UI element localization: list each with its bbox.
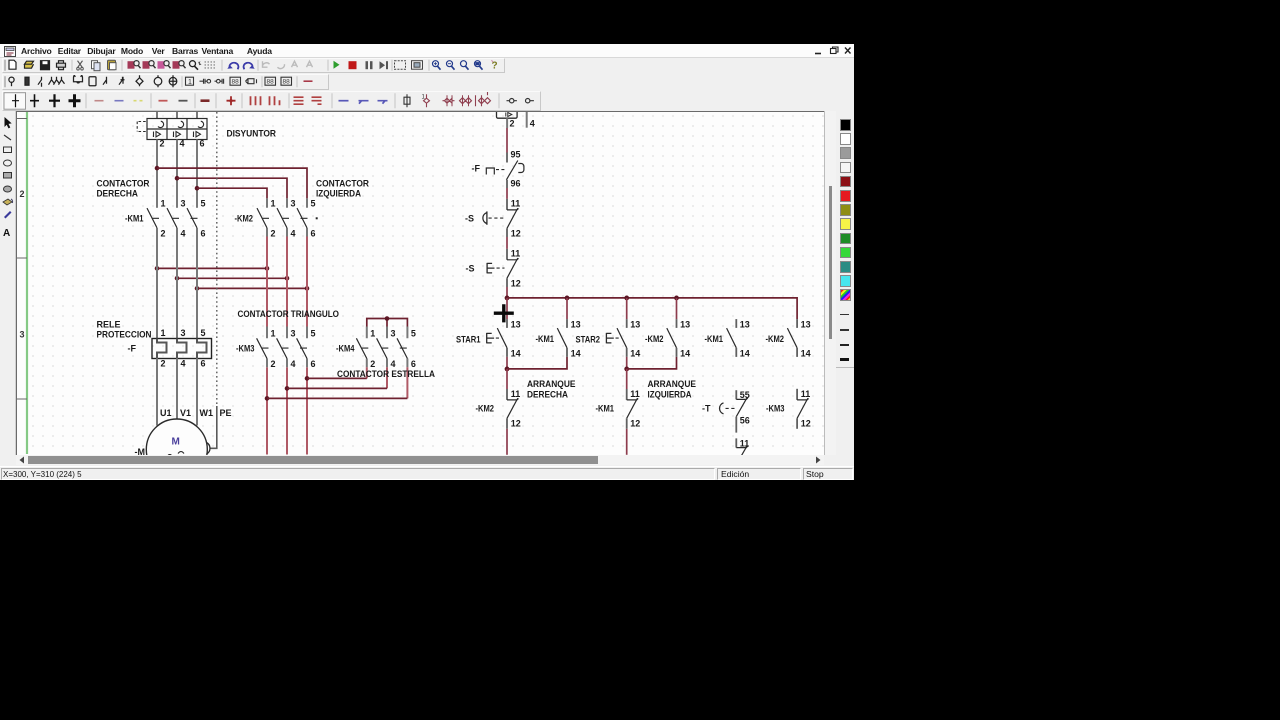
svg-text:PROTECCION: PROTECCION (97, 330, 152, 340)
svg-text:13: 13 (571, 319, 581, 329)
junction KM3 pole1 column to KM4 pole6 (265, 396, 270, 401)
svg-text:56: 56 (740, 416, 750, 426)
svg-text:3: 3 (291, 329, 296, 339)
motor M1 terminal labels U1 V1 W1 (160, 408, 213, 418)
svg-text:6: 6 (200, 139, 205, 149)
svg-text:CONTACTOR TRIANGULO: CONTACTOR TRIANGULO (238, 309, 340, 319)
svg-text:-KM2: -KM2 (766, 334, 785, 344)
svg-text:11: 11 (630, 389, 640, 399)
svg-text:-KM1: -KM1 (536, 334, 555, 344)
PE conductor (207, 112, 217, 454)
svg-text:6: 6 (411, 359, 416, 369)
svg-text:13: 13 (740, 319, 750, 329)
svg-text:4: 4 (181, 359, 186, 369)
svg-text:3: 3 (181, 328, 186, 338)
svg-text:-KM2: -KM2 (645, 334, 664, 344)
svg-text:-F: -F (128, 344, 137, 354)
svg-text:1: 1 (188, 79, 192, 86)
junction bus to STAR2 (624, 296, 629, 301)
start button STAR2 13-14 (606, 319, 626, 357)
svg-text:DERECHA: DERECHA (97, 189, 139, 199)
svg-text:STAR1: STAR1 (456, 334, 481, 344)
junction L3 feed to KM2 (195, 186, 200, 191)
svg-text:CONTACTOR ESTRELLA: CONTACTOR ESTRELLA (337, 369, 435, 379)
svg-text:?: ? (492, 61, 498, 72)
interlock contact KM1 11-12 (627, 389, 639, 429)
svg-text:6: 6 (311, 359, 316, 369)
svg-text:4: 4 (291, 359, 296, 369)
svg-text:-T: -T (702, 404, 711, 414)
svg-text:11: 11 (511, 389, 521, 399)
svg-text:12: 12 (511, 419, 521, 429)
svg-text:14: 14 (511, 349, 521, 359)
svg-text:6: 6 (201, 229, 206, 239)
svg-text:2: 2 (271, 359, 276, 369)
wire F1 to S1 (506, 188, 508, 199)
svg-text:U1: U1 (160, 408, 172, 418)
svg-text:5: 5 (311, 199, 316, 209)
svg-text:5: 5 (311, 329, 316, 339)
junction KM2 pole2 column (265, 266, 270, 271)
svg-text:A: A (3, 228, 10, 239)
wire bus to STAR2 (626, 298, 628, 319)
svg-text:M: M (172, 437, 180, 448)
aux contact KM1 13-14 (seal-in) (557, 319, 567, 357)
svg-text:13: 13 (630, 319, 640, 329)
svg-text:14: 14 (740, 349, 750, 359)
contact below T1 (clipped at sheet edge) (736, 446, 748, 456)
junction L2 feed to KM2 (175, 176, 180, 181)
wire KM2 pole2 to L1 (157, 267, 267, 269)
wire STAR2 to seal junction (626, 357, 628, 369)
svg-text:2: 2 (160, 139, 165, 149)
svg-text:4: 4 (180, 139, 185, 149)
svg-text:1: 1 (370, 329, 375, 339)
junction star bridge (385, 316, 390, 321)
wire bus to STAR1 (506, 298, 508, 319)
svg-text:2: 2 (370, 359, 375, 369)
svg-text:DISYUNTOR: DISYUNTOR (227, 129, 277, 139)
wire KM4 pole2 to KM3 column W (366, 367, 368, 378)
wire Q2 to F1 trip contact (506, 128, 508, 153)
wire phase W branch to KM3 pole 5 (306, 237, 308, 455)
svg-text:4: 4 (530, 119, 535, 129)
wire KM4 pole6 to KM3 column U (406, 367, 408, 398)
svg-text:2: 2 (161, 359, 166, 369)
star bridge wire on KM4 tops (367, 319, 408, 327)
svg-text:13: 13 (680, 319, 690, 329)
svg-text:1: 1 (161, 199, 166, 209)
wire L3 supply drop to Q1 (196, 112, 198, 119)
svg-text:2: 2 (271, 229, 276, 239)
circuit breaker Q2 (control, 2-pole) (497, 106, 527, 128)
svg-text:V1: V1 (180, 408, 191, 418)
svg-text:PE: PE (220, 408, 232, 418)
svg-text:-KM1: -KM1 (125, 214, 144, 224)
svg-text:12: 12 (511, 279, 521, 289)
svg-text:14: 14 (630, 349, 640, 359)
svg-text:IZQUIERDA: IZQUIERDA (316, 189, 361, 199)
interlock contact KM3 11-12 (797, 389, 809, 429)
aux contact KM2 13-14 (right branch) (787, 319, 797, 357)
svg-text:3: 3 (291, 199, 296, 209)
svg-text:6: 6 (201, 359, 206, 369)
svg-text:-S: -S (465, 214, 474, 224)
svg-text:11: 11 (511, 248, 521, 258)
wire S2 to control bus (506, 287, 508, 298)
junction KM3 pole5 column to KM4 pole2 (305, 376, 310, 381)
wire L2 to KM2 pole 3 (177, 178, 287, 198)
svg-text:-S: -S (466, 264, 475, 274)
junction KM2 pole6 column (305, 286, 310, 291)
start button STAR1 13-14 (487, 319, 507, 357)
svg-text:ARRANQUE: ARRANQUE (648, 379, 697, 389)
svg-text:88: 88 (232, 79, 240, 86)
wire L3: Q1 to KM1 pole 5 (196, 140, 198, 208)
wire L1: F1 to motor U1 (156, 359, 158, 426)
svg-text:6: 6 (311, 229, 316, 239)
junction control bus at S2 (505, 296, 510, 301)
svg-text:ARRANQUE: ARRANQUE (527, 379, 576, 389)
svg-text:55: 55 (740, 390, 750, 400)
junction KM2 pole2 output on L1 (155, 266, 160, 271)
overload relay F1 (152, 328, 212, 369)
svg-text:3: 3 (391, 329, 396, 339)
wire L2: F1 to motor V1 (176, 359, 178, 420)
wire L1 supply drop to Q1 (156, 112, 158, 119)
svg-text:-KM4: -KM4 (336, 344, 355, 354)
wire phase V branch to KM3 pole 3 (286, 237, 288, 455)
junction KM2 pole4 output on L2 (175, 276, 180, 281)
overload trip contact F1 95-96 (486, 153, 524, 189)
svg-text:2: 2 (20, 189, 25, 199)
svg-text:RELE: RELE (97, 320, 121, 330)
junction bus to KM1 aux (565, 296, 570, 301)
wire seal-in KM2 branch (627, 357, 677, 369)
svg-text:5: 5 (201, 328, 206, 338)
svg-text:3: 3 (20, 330, 25, 340)
svg-text:2: 2 (161, 229, 166, 239)
wire bus to KM2 aux (676, 298, 678, 319)
svg-text:4: 4 (391, 359, 396, 369)
aux contact KM1 13-14 (timer branch, unconnected top) (727, 319, 737, 357)
svg-text:12: 12 (801, 419, 811, 429)
svg-text:DERECHA: DERECHA (527, 389, 568, 399)
svg-text:1: 1 (161, 328, 166, 338)
wire L3: F1 to motor W1 (196, 359, 198, 426)
svg-text:12: 12 (630, 419, 640, 429)
svg-text:4: 4 (291, 229, 296, 239)
junction KM2 pole4 column (285, 276, 290, 281)
wire L2 supply drop to Q1 (176, 112, 178, 119)
svg-text:5: 5 (201, 199, 206, 209)
svg-text:-M: -M (135, 447, 146, 455)
wire KM2 pole4 to L2 (177, 277, 287, 279)
svg-text:1: 1 (271, 329, 276, 339)
svg-text:96: 96 (511, 179, 521, 189)
junction KM2 pole6 output on L3 (195, 286, 200, 291)
timer contact T1 55-56 (720, 390, 748, 447)
svg-text:-KM2: -KM2 (235, 214, 254, 224)
svg-text:-KM3: -KM3 (236, 344, 255, 354)
wire KM2 pole6 to L3 (197, 287, 307, 289)
cursor crosshair (494, 304, 514, 322)
svg-text:14: 14 (801, 349, 811, 359)
wire S1 to S2 (506, 237, 508, 249)
svg-text:88: 88 (283, 79, 291, 86)
svg-text:11: 11 (801, 389, 811, 399)
svg-text:-F: -F (472, 164, 481, 174)
pin labels 2 4 6 of Q1 (160, 139, 205, 149)
svg-text:-KM1: -KM1 (596, 404, 615, 414)
junction KM3 pole3 column to KM4 pole4 (285, 386, 290, 391)
svg-text:2: 2 (510, 119, 515, 129)
control bus wire (507, 298, 797, 319)
wire L2: KM1 to F1 (176, 228, 178, 339)
wire L3: KM1 to F1 (196, 228, 198, 339)
wire bus to KM1 aux (566, 298, 568, 319)
interlock contact KM2 11-12 (507, 389, 519, 429)
svg-text:13: 13 (511, 319, 521, 329)
contactor KM1 main contacts (147, 199, 206, 239)
svg-text:11: 11 (740, 438, 750, 448)
svg-text:-KM3: -KM3 (766, 404, 785, 414)
svg-text:IZQUIERDA: IZQUIERDA (648, 389, 692, 399)
wire L1 to KM2 pole 5 (phase swap) (157, 168, 307, 198)
aux contact KM2 13-14 (seal-in) (667, 319, 677, 357)
wire seal-in KM1 branch (507, 357, 567, 369)
wire izquierda branch down (626, 369, 628, 389)
junction L1 feed to KM2 (155, 166, 160, 171)
svg-text:95: 95 (511, 149, 521, 159)
motor M1 (146, 419, 207, 480)
wire L2: Q1 to KM1 pole 3 (176, 140, 178, 208)
svg-text:1: 1 (271, 199, 276, 209)
contactor KM4 main contacts (estrella) (356, 327, 416, 370)
svg-text:88: 88 (267, 79, 275, 86)
svg-text:4: 4 (181, 229, 186, 239)
stop button S1 11-12 (mushroom head) (483, 199, 519, 237)
stop button S2 11-12 (push actuator) (487, 249, 518, 287)
wire L1: KM1 to F1 (156, 228, 158, 339)
svg-text:13: 13 (801, 319, 811, 329)
svg-text:12: 12 (511, 229, 521, 239)
svg-text:CONTACTOR: CONTACTOR (316, 179, 369, 189)
svg-text:11: 11 (511, 198, 521, 208)
contactor KM2 main contacts (257, 198, 318, 238)
svg-text:5: 5 (411, 329, 416, 339)
wire L1: Q1 to KM1 pole 1 (156, 140, 158, 208)
svg-text:-KM1: -KM1 (705, 334, 724, 344)
svg-text:3: 3 (181, 199, 186, 209)
svg-text:STAR2: STAR2 (576, 334, 601, 344)
svg-text:CONTACTOR: CONTACTOR (97, 179, 150, 189)
junction seal-in izquierda (624, 367, 629, 372)
junction seal-in derecha (505, 367, 510, 372)
wire derecha branch down (506, 369, 508, 389)
svg-text:14: 14 (680, 349, 690, 359)
wire KM4 pole4 to KM3 column V (386, 367, 388, 388)
contactor KM3 main contacts (triangulo) (257, 327, 316, 370)
circuit breaker Q1 (3-pole disyuntor) (137, 119, 207, 140)
wire STAR1 to seal junction (506, 357, 508, 369)
svg-text:W1: W1 (200, 408, 214, 418)
wire phase U branch to KM3 pole 1 (266, 237, 268, 455)
wire to KM2 coil (off sheet) (626, 429, 628, 455)
svg-text:14: 14 (571, 349, 581, 359)
wire L3 to KM2 pole 1 (197, 188, 267, 198)
junction bus to KM2 aux (674, 296, 679, 301)
wire to KM1 coil (off sheet) (506, 429, 508, 455)
svg-text:-KM2: -KM2 (476, 404, 495, 414)
